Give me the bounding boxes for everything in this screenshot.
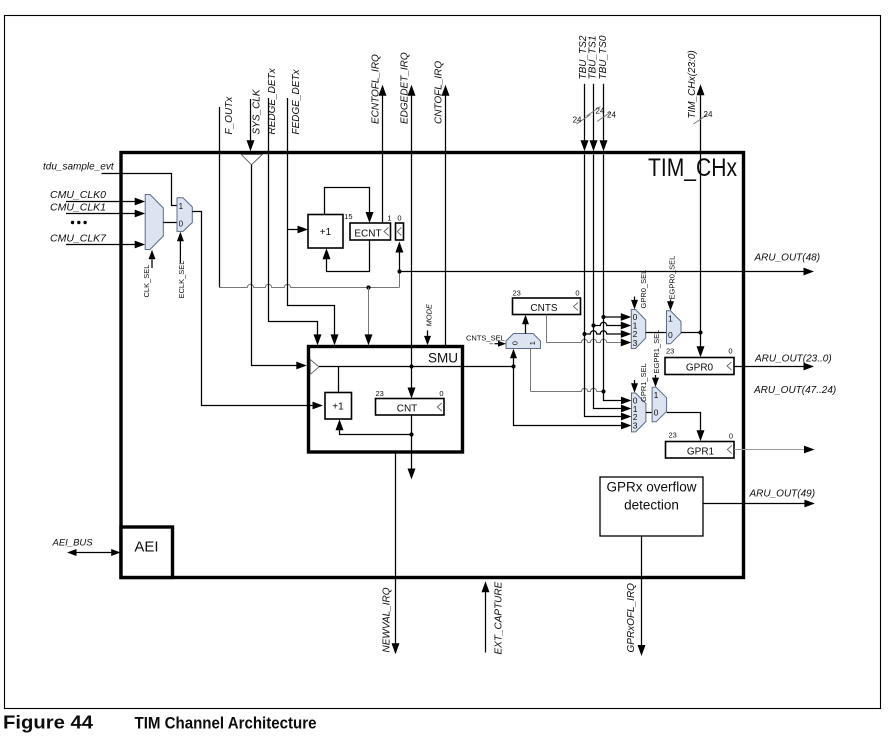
incrementer +1 (ECNT) <box>308 215 343 249</box>
svg-text:tdu_sample_evt: tdu_sample_evt <box>43 162 115 173</box>
svg-text:0: 0 <box>397 214 401 223</box>
wire into GPR0 register <box>700 333 702 349</box>
svg-text:0: 0 <box>179 220 184 229</box>
block SMU <box>309 347 463 453</box>
mux ECLK_SEL <box>177 198 192 232</box>
svg-text:0: 0 <box>575 289 579 298</box>
junction dot edge-bit node <box>397 269 401 273</box>
svg-text:ECNT: ECNT <box>354 229 381 240</box>
select arrow EGPR1_SEL <box>655 375 657 378</box>
block AEI <box>121 527 173 578</box>
svg-text:ECLK_SEL: ECLK_SEL <box>177 261 186 299</box>
svg-text:ARU_OUT(23..0): ARU_OUT(23..0) <box>754 354 832 365</box>
mux GPR1_SEL <box>632 393 646 432</box>
wire CNT feedback to +1 <box>340 429 412 435</box>
svg-text:ARU_OUT(49): ARU_OUT(49) <box>749 489 816 500</box>
wire ARU_OUT(48) <box>400 271 805 273</box>
wire F_OUTx branch down into SMU <box>368 288 370 337</box>
svg-text:0: 0 <box>728 347 732 356</box>
SMU clock input chevron <box>310 360 319 375</box>
module box TIM_CHx <box>121 153 744 578</box>
wire TBU_TS1 <box>593 84 595 142</box>
wire GPR0 mux output to EGPR0 mux input 0 <box>646 332 667 334</box>
wire FEDGE_DETx into SMU <box>288 98 335 336</box>
svg-text:24: 24 <box>704 110 713 119</box>
wire ECNT feedback top <box>325 188 370 215</box>
junction dot EGPR0 output / TIM_CHx data <box>698 330 702 334</box>
svg-text:AEI_BUS: AEI_BUS <box>52 538 94 549</box>
svg-text:CNT: CNT <box>397 404 418 415</box>
register GPR0 <box>665 358 734 375</box>
bus slash TBU_TS2 <box>577 115 591 125</box>
wire FEDGE_DETx branch to ECNT +1 <box>288 229 299 231</box>
svg-text:TBU_TS1: TBU_TS1 <box>587 36 598 80</box>
svg-text:3: 3 <box>633 420 638 430</box>
svg-text:1: 1 <box>528 341 537 345</box>
wire tdu_sample_evt to ECLK mux input 1 <box>102 174 178 206</box>
wire EGPR0 mux output <box>681 332 701 334</box>
svg-text:3: 3 <box>633 338 638 348</box>
wire EDGEDET_IRQ <box>411 95 413 367</box>
junction dot CNT feedback <box>409 432 413 436</box>
svg-text:0: 0 <box>729 432 733 441</box>
svg-text:+1: +1 <box>332 402 344 413</box>
wire ECNTOFL_IRQ <box>382 95 384 223</box>
svg-text:+1: +1 <box>320 227 332 238</box>
svg-text:24: 24 <box>607 111 616 120</box>
svg-text:23: 23 <box>513 289 521 298</box>
wire CMU_CLK7 <box>66 244 136 246</box>
svg-text:TIM Channel Architecture: TIM Channel Architecture <box>135 714 317 733</box>
svg-text:CNTS: CNTS <box>530 303 558 314</box>
svg-text:ARU_OUT(48): ARU_OUT(48) <box>754 253 821 264</box>
select arrow ECLK_SEL <box>179 241 181 263</box>
mux CNTS_SEL <box>506 334 541 349</box>
select arrow GPR1_SEL <box>634 380 636 384</box>
svg-text:0: 0 <box>511 341 520 345</box>
bus slash TBU_TS1 <box>587 107 601 117</box>
select arrow CLK_SEL <box>151 260 153 269</box>
mux GPR0_SEL <box>631 310 645 349</box>
mux CLK_SEL <box>145 195 163 250</box>
wire TIM_CHx(23:0) vertical <box>700 95 702 333</box>
junction dot TBU_TS0/GPR0 <box>601 315 605 319</box>
junction dot F_OUTx/SMU branch <box>366 285 370 289</box>
wire TBU_TS2 <box>584 84 586 142</box>
junction dot SMU output <box>511 364 515 368</box>
register GPR1 <box>666 442 735 459</box>
wire NEWVAL_IRQ <box>395 452 397 645</box>
register CNTS <box>513 298 581 315</box>
wire to SMU +1 top <box>338 367 340 393</box>
wire ECLK mux output to SMU +1 <box>192 212 313 406</box>
svg-text:0: 0 <box>654 408 659 418</box>
svg-text:23: 23 <box>666 347 674 356</box>
incrementer +1 (SMU) <box>325 393 352 420</box>
svg-text:NEWVAL_IRQ: NEWVAL_IRQ <box>382 587 393 652</box>
svg-text:TIM_CHx: TIM_CHx <box>648 154 737 182</box>
svg-text:GPR0_SEL: GPR0_SEL <box>639 270 648 309</box>
svg-text:0: 0 <box>668 330 673 340</box>
wire GPRxOFL_IRQ <box>641 536 643 647</box>
svg-text:GPRxOFL_IRQ: GPRxOFL_IRQ <box>626 583 637 653</box>
wire ECNT feedback bottom <box>327 240 370 272</box>
svg-text:EDGEDET_IRQ: EDGEDET_IRQ <box>399 52 410 124</box>
wire GPR0 mux input 0 <box>604 316 622 318</box>
wire TBU_TS0 <box>603 84 605 142</box>
svg-text:AEI: AEI <box>134 539 158 556</box>
svg-text:TIM_CHx(23:0): TIM_CHx(23:0) <box>687 50 698 118</box>
svg-text:23: 23 <box>376 389 384 398</box>
block GPRx overflow detection <box>600 477 703 536</box>
wire ARU_OUT(23..0) <box>734 366 804 368</box>
funnel below border for SYS_CLK <box>241 154 262 164</box>
svg-text:Figure 44: Figure 44 <box>3 713 93 733</box>
svg-text:24: 24 <box>573 116 582 125</box>
svg-text:CLK_SEL: CLK_SEL <box>142 265 151 298</box>
wire GPR1 mux output to EGPR1 mux input 0 <box>646 412 652 414</box>
svg-text:1: 1 <box>668 314 673 324</box>
register ECNT <box>350 223 391 240</box>
wire GPR1 output <box>734 449 805 451</box>
svg-text:23: 23 <box>669 431 677 440</box>
ellipsis dots <box>71 221 74 224</box>
wire AEI_BUS bidirectional <box>76 552 112 554</box>
svg-text:CMU_CLK1: CMU_CLK1 <box>50 202 106 214</box>
svg-text:GPR1: GPR1 <box>687 447 715 458</box>
svg-text:FEDGE_DETx: FEDGE_DETx <box>291 68 302 134</box>
wire CMU_CLK0 <box>66 201 136 203</box>
svg-text:GPR1_SEL: GPR1_SEL <box>639 363 648 402</box>
junction dot TBU_TS2/GPR0 <box>582 332 586 336</box>
svg-text:1: 1 <box>387 214 391 223</box>
svg-text:GPRx overflow: GPRx overflow <box>606 480 696 495</box>
bus slash TIM_CHx(23:0) <box>694 115 708 125</box>
svg-text:CNTOFL_IRQ: CNTOFL_IRQ <box>434 61 445 124</box>
mux EGPR0_SEL <box>667 311 682 344</box>
select arrow CNTS_SEL <box>490 343 494 345</box>
wire SYS_CLK down to SMU clock chevron <box>252 165 298 366</box>
svg-text:1: 1 <box>179 202 184 211</box>
select arrow GPR0_SEL <box>634 297 636 301</box>
svg-text:SYS_CLK: SYS_CLK <box>252 88 263 134</box>
wire EXT_CAPTURE <box>485 591 487 653</box>
wire CNT output down <box>411 415 413 470</box>
svg-text:15: 15 <box>344 212 352 221</box>
junction dot TBU_TS0 / CNTS source <box>601 389 605 393</box>
svg-text:MODE: MODE <box>424 303 433 326</box>
svg-text:F_OUTx: F_OUTx <box>224 96 235 135</box>
wire CNT value up to CNTS_SEL mux input 0 <box>513 358 515 367</box>
svg-text:detection: detection <box>624 498 679 513</box>
svg-text:ARU_OUT(47..24): ARU_OUT(47..24) <box>753 385 836 396</box>
select arrow EGPR0_SEL <box>670 300 672 302</box>
wire SMU internal clock line <box>319 366 514 368</box>
wire CNTS to GPR0 mux input 3 <box>546 315 548 343</box>
svg-text:CMU_CLK7: CMU_CLK7 <box>50 233 107 245</box>
wire F_OUTx horizontal with hops <box>220 284 400 287</box>
svg-text:ECNTOFL_IRQ: ECNTOFL_IRQ <box>371 54 382 124</box>
svg-text:GPR0: GPR0 <box>686 363 714 374</box>
wire ARU_OUT(49) <box>703 503 805 505</box>
wire CNT value to GPR1 mux input 3 <box>514 367 622 426</box>
svg-text:TBU_TS0: TBU_TS0 <box>598 35 609 79</box>
svg-text:CMU_CLK0: CMU_CLK0 <box>50 189 106 201</box>
wire GPR0 mux input 1 <box>594 322 622 325</box>
select arrow MODE <box>427 331 429 338</box>
junction dot TBU_TS1/GPR0 <box>591 323 595 327</box>
wire F_OUTx branch up to edge-bit node <box>399 272 401 288</box>
register CNT <box>376 399 445 416</box>
svg-text:1: 1 <box>654 390 659 400</box>
wire TBU_TS0 tap to CNTS_SEL mux input 1 <box>530 349 532 392</box>
wire CMU_CLK1 <box>66 213 136 215</box>
wire SYS_CLK with arrow into border <box>250 99 252 142</box>
wire GPR0 mux input 2 <box>585 331 622 334</box>
svg-text:EXT_CAPTURE: EXT_CAPTURE <box>494 581 505 654</box>
wire CLK mux output to ECLK mux input 0 <box>163 222 177 224</box>
svg-text:EGPR1_SEL: EGPR1_SEL <box>652 330 661 374</box>
bus slash TBU_TS0 <box>597 112 611 122</box>
wire REDGE_DETx into SMU <box>269 98 318 336</box>
wire CNTOFL_IRQ <box>445 95 447 347</box>
mux EGPR1_SEL <box>652 387 667 422</box>
junction dot CNT top <box>409 364 413 368</box>
svg-text:SMU: SMU <box>428 351 458 366</box>
wire arrow into CNT <box>411 367 413 390</box>
register ECNT bit0 <box>396 223 404 240</box>
wire EGPR1 mux output into GPR1 <box>667 413 701 433</box>
svg-text:EGPR0_SEL: EGPR0_SEL <box>667 256 676 300</box>
wire CNTS_SEL mux output up to CNTS <box>525 324 527 334</box>
wire edge bit up into ECNT bit0 <box>399 251 401 272</box>
wire F_OUTx vertical <box>219 107 221 288</box>
svg-text:0: 0 <box>439 389 443 398</box>
